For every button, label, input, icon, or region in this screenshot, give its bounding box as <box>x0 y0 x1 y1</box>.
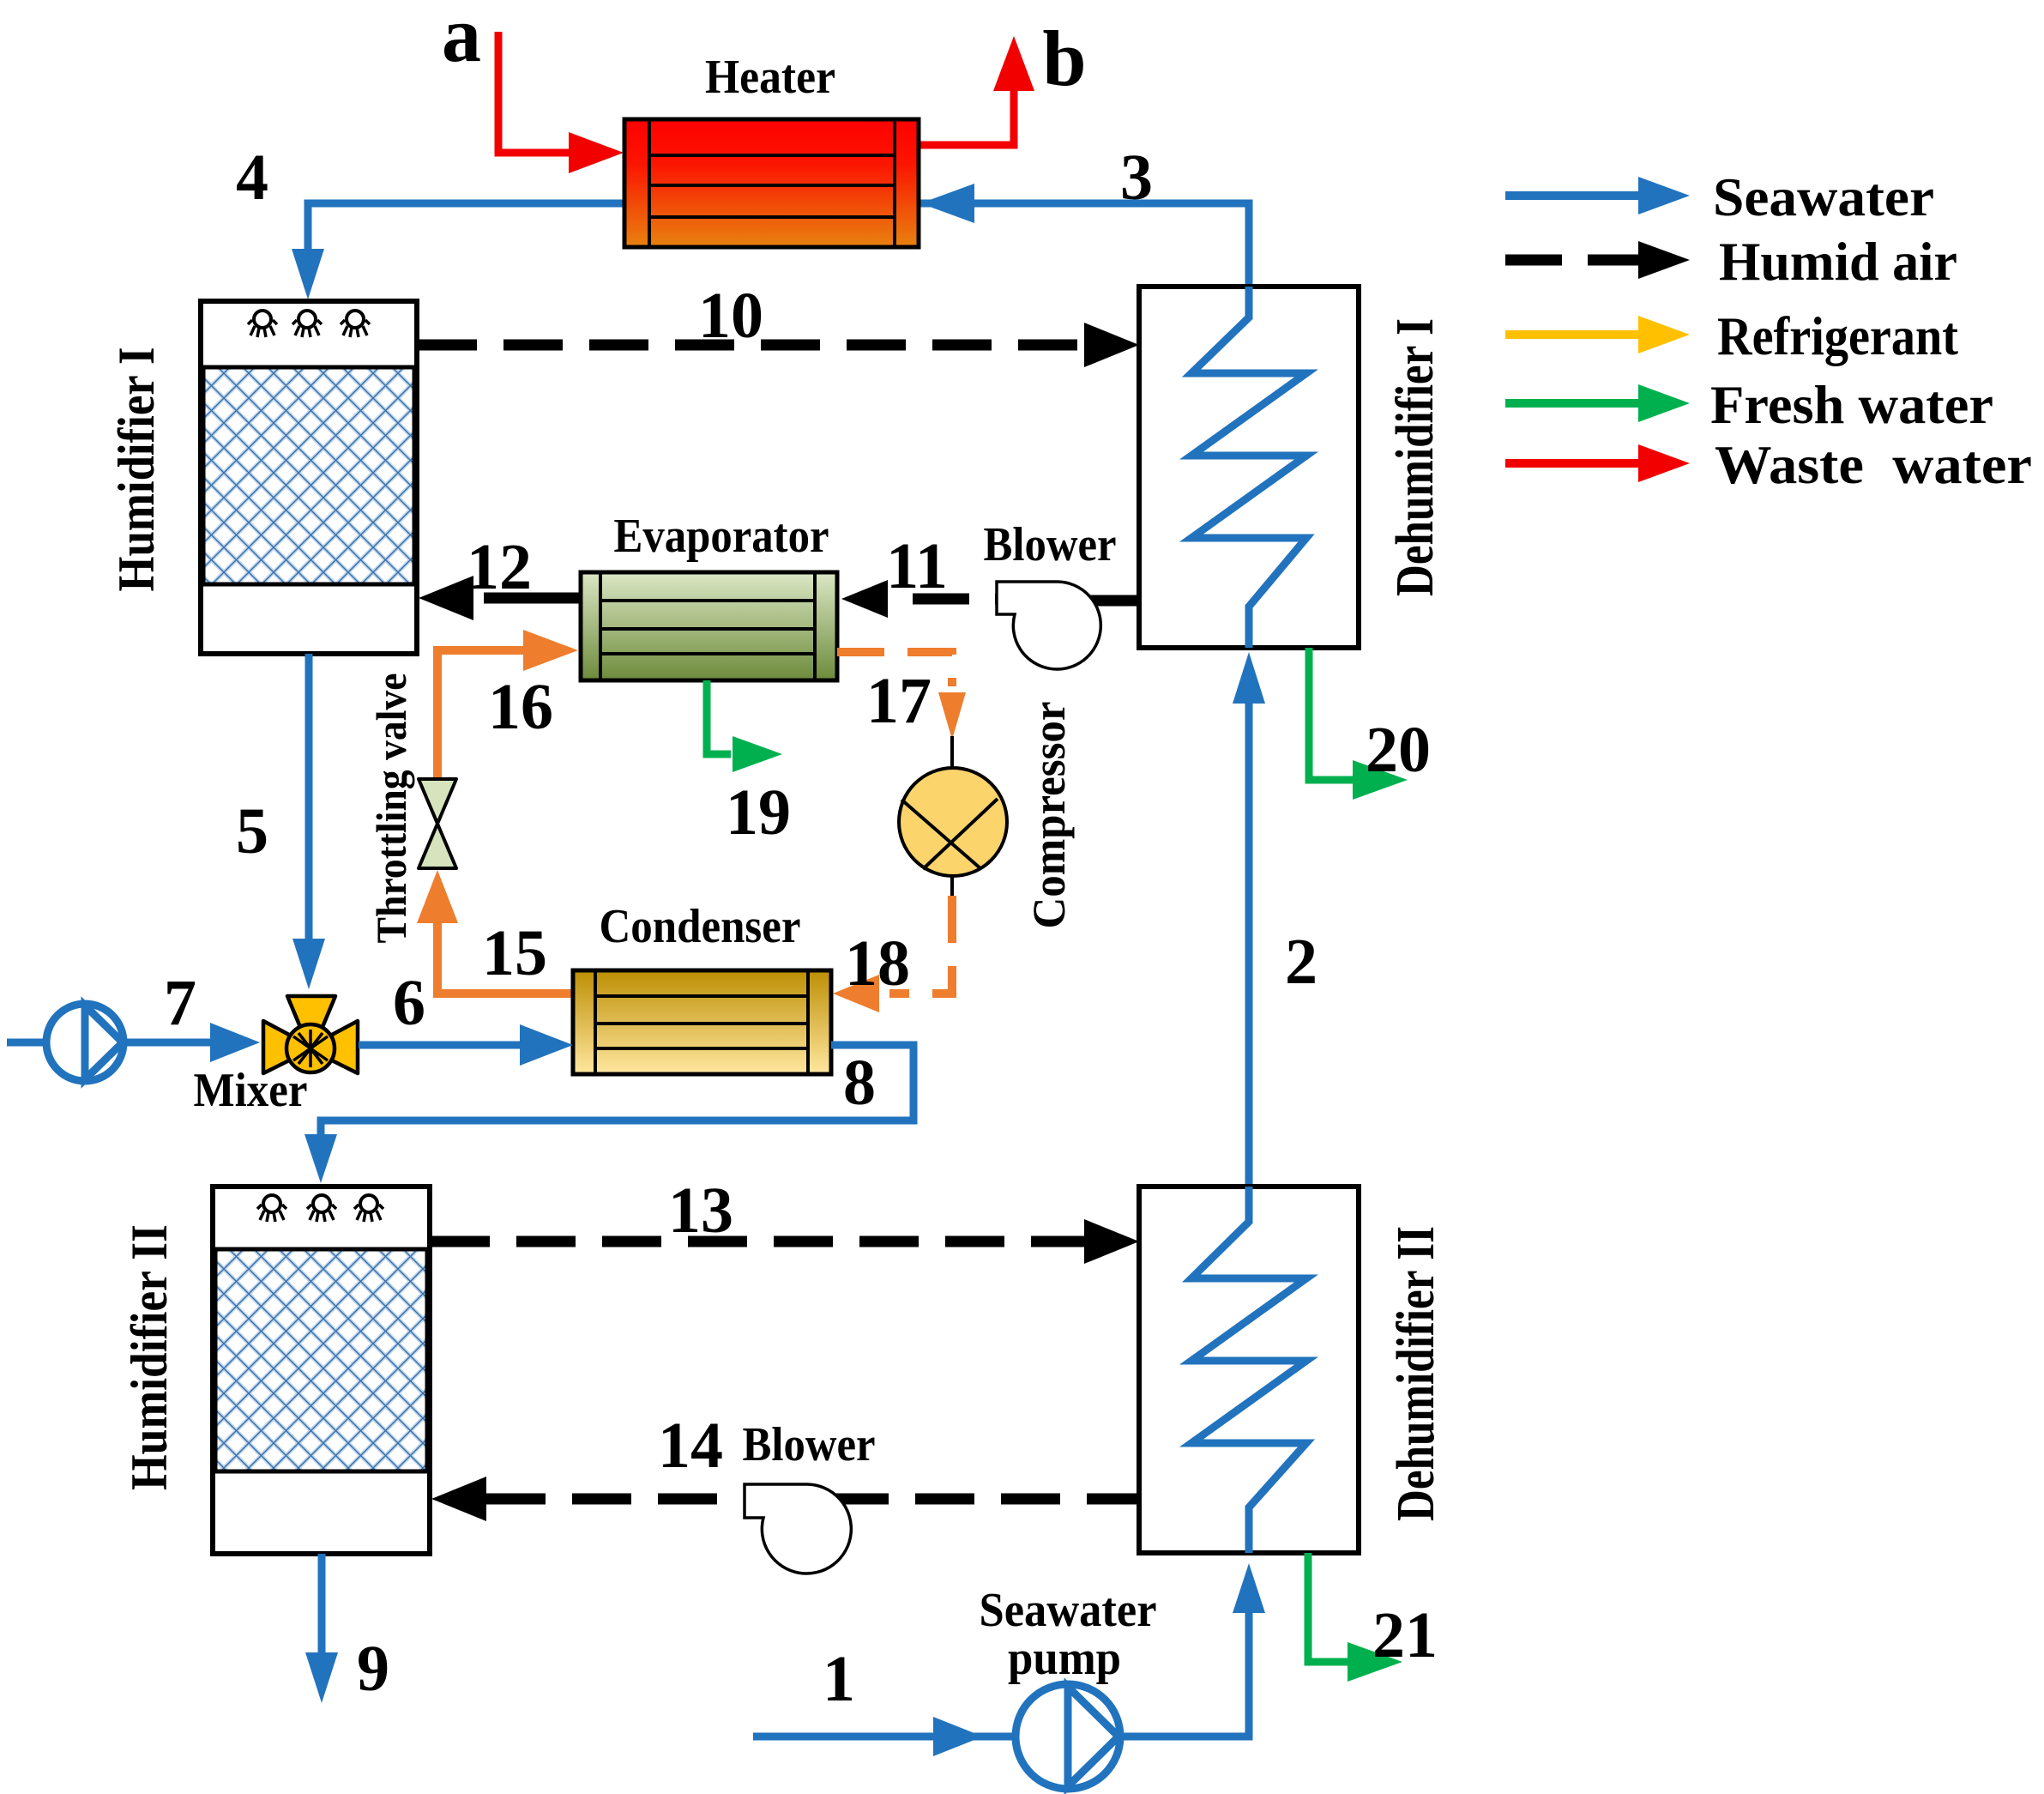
humidifier II <box>213 1187 430 1554</box>
legend humid air <box>1505 255 1642 266</box>
wire seawater 5 <box>305 654 313 942</box>
arrow humid air into humidifier II (14) <box>431 1477 486 1521</box>
wire seawater 7 <box>124 1039 214 1047</box>
mixer <box>263 996 358 1073</box>
wire humid air 12 <box>484 593 581 604</box>
wire seawater 6 <box>359 1042 522 1049</box>
blower I <box>997 582 1100 669</box>
throttling valve <box>419 779 456 868</box>
wire humid air 14 dashed <box>486 1494 1139 1505</box>
svg-text:a: a <box>442 0 481 78</box>
arrow seawater into condenser (6) <box>520 1024 573 1066</box>
wire seawater 4->heater->3 (behind heater) <box>308 203 1249 287</box>
arrow humid air into dehumidifier II (13) <box>1084 1219 1139 1264</box>
svg-text:Mixer: Mixer <box>194 1064 308 1117</box>
svg-text:3: 3 <box>1120 142 1153 214</box>
arrow refrigerant down to compressor (17) <box>938 692 966 740</box>
svg-text:Humidifier I: Humidifier I <box>108 347 165 592</box>
wire waste water a inlet <box>498 32 570 153</box>
nozzles humidifier I <box>248 311 370 337</box>
wire humid air 10 dashed <box>418 340 1089 351</box>
svg-text:Condenser: Condenser <box>600 900 801 953</box>
compressor <box>899 768 1007 876</box>
svg-text:Heater: Heater <box>705 51 835 104</box>
arrow seawater into mixer (5) <box>292 939 325 989</box>
arrow seawater into pump (1) <box>933 1717 983 1756</box>
wire refrigerant 18 dashed <box>889 896 952 994</box>
svg-text:1: 1 <box>823 1643 855 1715</box>
dehumidifier I <box>1139 287 1359 648</box>
svg-text:17: 17 <box>866 665 932 737</box>
condenser <box>573 970 831 1074</box>
svg-text:19: 19 <box>726 776 791 849</box>
svg-text:Blower: Blower <box>984 518 1117 571</box>
svg-text:4: 4 <box>236 142 268 214</box>
svg-text:14: 14 <box>658 1410 723 1482</box>
svg-text:Waste water: Waste water <box>1715 434 2032 495</box>
wire refrigerant 17 dashed <box>837 652 952 686</box>
arrow seawater into humidifier I top (4) <box>292 249 324 299</box>
svg-text:12: 12 <box>467 531 532 603</box>
seawater pump <box>1016 1684 1120 1789</box>
svg-text:8: 8 <box>843 1047 876 1119</box>
arrow refrigerant into condenser (18) <box>833 975 879 1012</box>
wire fresh water 21 <box>1308 1553 1349 1662</box>
arrow waste water into heater left <box>569 132 624 173</box>
arrow seawater into mixer left (7) <box>210 1023 260 1062</box>
svg-text:13: 13 <box>668 1175 733 1247</box>
arrow seawater into humidifier II top (8) <box>304 1134 337 1183</box>
wire refrigerant 15 <box>437 918 573 994</box>
arrow seawater into dehumidifier II bottom <box>1233 1563 1265 1613</box>
legend refrigerant <box>1505 330 1642 339</box>
arrow refrigerant into evaporator (16) <box>523 630 578 671</box>
heater <box>624 119 919 247</box>
svg-text:6: 6 <box>393 967 425 1039</box>
arrow fresh water 19 <box>733 736 782 772</box>
arrow refrigerant into valve (15) <box>417 870 458 923</box>
dehumidifier II <box>1139 1187 1359 1553</box>
arrow seawater into heater right (3) <box>920 184 974 223</box>
wire humid air 13 dashed <box>431 1236 1089 1247</box>
svg-text:Humidifier II: Humidifier II <box>121 1224 178 1490</box>
blower II <box>745 1484 851 1574</box>
svg-text:20: 20 <box>1366 714 1431 786</box>
legend waste water <box>1505 459 1642 468</box>
evaporator <box>581 572 837 680</box>
arrow seawater out (9) <box>305 1652 338 1703</box>
svg-text:15: 15 <box>482 917 547 989</box>
wire seawater 8 <box>321 1045 913 1141</box>
wire compressor inlet stub <box>950 736 954 769</box>
svg-text:Fresh water: Fresh water <box>1710 374 1993 435</box>
svg-text:Seawater: Seawater <box>1713 166 1934 227</box>
svg-text:9: 9 <box>357 1633 389 1705</box>
svg-text:Compressor: Compressor <box>1023 702 1075 929</box>
svg-text:Humid air: Humid air <box>1719 231 1957 292</box>
seawater feed pump left <box>7 1004 124 1081</box>
arrow fresh water 21 <box>1348 1642 1402 1682</box>
wire seawater 9 <box>318 1554 326 1656</box>
svg-text:Throttling valve: Throttling valve <box>367 674 415 944</box>
humidifier I <box>201 301 417 654</box>
wire blower I to dehumidifier I <box>1082 595 1139 607</box>
wire seawater 1 <box>753 1733 1016 1741</box>
svg-text:Seawater: Seawater <box>980 1584 1157 1637</box>
wire fresh water 20 <box>1309 648 1354 780</box>
svg-text:5: 5 <box>236 795 268 867</box>
svg-text:Blower: Blower <box>743 1418 876 1471</box>
svg-text:Refrigerant: Refrigerant <box>1717 305 1959 366</box>
svg-text:Evaporator: Evaporator <box>614 510 829 563</box>
svg-text:11: 11 <box>886 530 948 602</box>
arrow humid air into dehumidifier I (10) <box>1084 323 1139 367</box>
arrow humid air into humidifier I (12) <box>419 576 473 620</box>
wire waste water b outlet <box>919 88 1014 145</box>
svg-text:Dehumidifier II: Dehumidifier II <box>1387 1226 1445 1521</box>
arrow seawater into dehumidifier I (2) <box>1233 652 1265 704</box>
svg-text:Dehumidifier I: Dehumidifier I <box>1386 318 1444 596</box>
wire compressor outlet stub <box>950 876 954 896</box>
svg-text:10: 10 <box>698 280 763 352</box>
svg-text:21: 21 <box>1372 1599 1438 1671</box>
nozzles humidifier II <box>257 1195 383 1222</box>
legend seawater <box>1505 191 1642 200</box>
wire seawater 2 <box>1245 700 1253 1187</box>
wire refrigerant 16 <box>437 650 525 783</box>
wire fresh water 19 <box>707 680 731 754</box>
svg-text:16: 16 <box>488 671 553 743</box>
arrow humid air into evaporator (11) <box>841 580 888 618</box>
svg-text:18: 18 <box>845 927 910 1000</box>
svg-text:pump: pump <box>1008 1632 1121 1685</box>
wire humid air 11 dashed <box>913 594 1026 605</box>
svg-text:b: b <box>1042 15 1086 102</box>
svg-text:7: 7 <box>164 967 196 1039</box>
legend fresh water <box>1505 399 1642 408</box>
svg-text:2: 2 <box>1285 926 1317 998</box>
arrow waste water up (b) <box>993 36 1034 91</box>
arrow fresh water 20 <box>1353 760 1408 800</box>
wire seawater pump to dehumidifier II <box>1120 1610 1249 1737</box>
